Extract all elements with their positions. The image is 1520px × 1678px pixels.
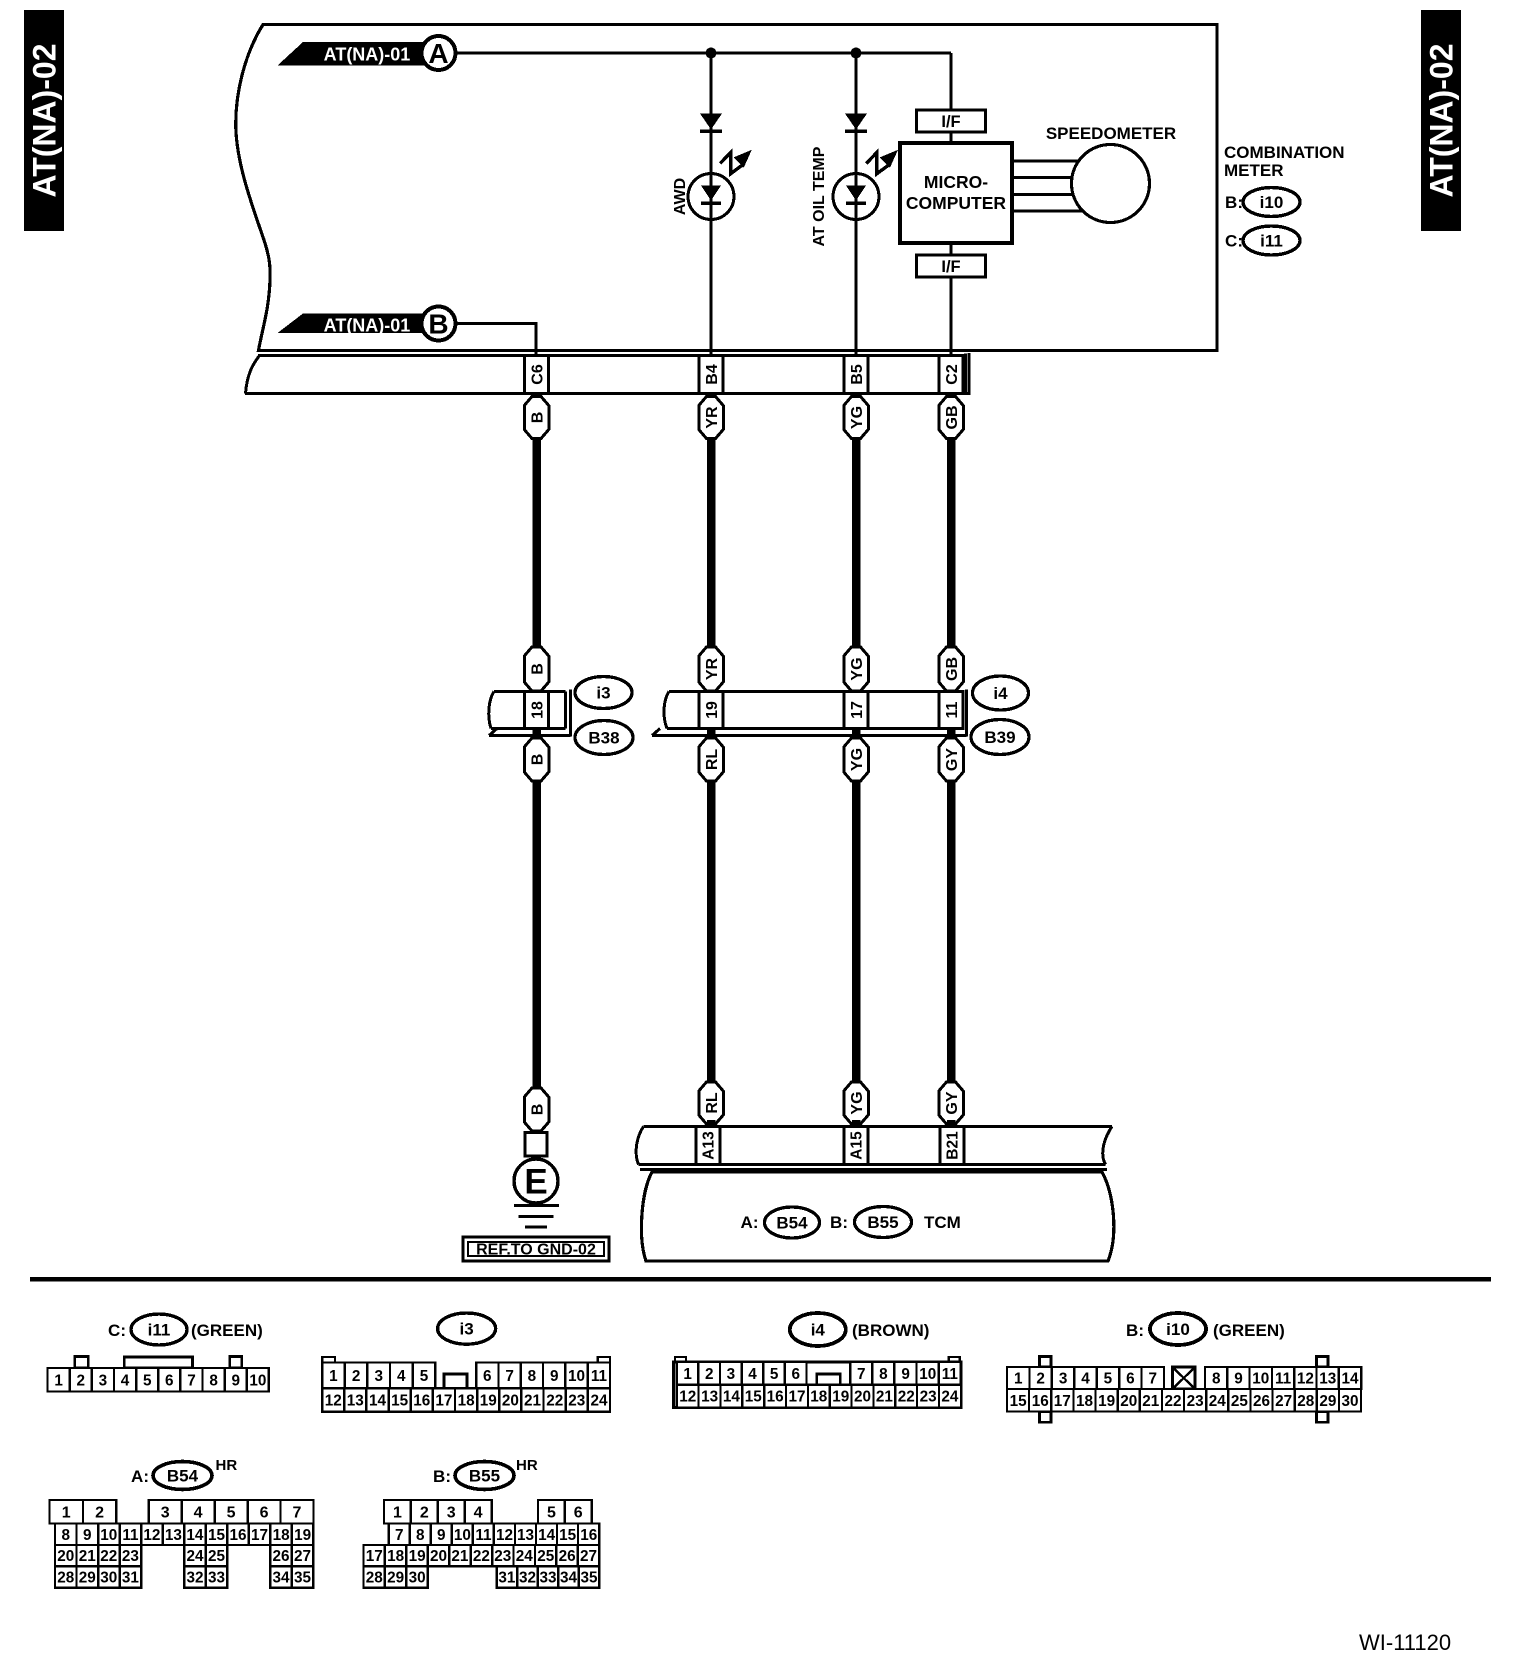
svg-text:34: 34 [560,1570,578,1587]
svg-text:2: 2 [95,1505,104,1522]
label SPEEDOMETER [1046,124,1176,143]
svg-text:18: 18 [1076,1393,1094,1410]
svg-text:15: 15 [208,1527,226,1544]
svg-text:2: 2 [352,1368,361,1385]
svg-text:29: 29 [1319,1393,1336,1410]
wire stub [852,1120,861,1128]
connector id B39 [971,720,1029,755]
svg-text:B5: B5 [849,364,866,385]
svg-text:1: 1 [683,1366,692,1383]
svg-text:B55: B55 [867,1213,898,1232]
svg-text:YG: YG [849,748,866,771]
svg-text:11: 11 [1275,1371,1292,1388]
svg-text:A15: A15 [849,1131,866,1160]
svg-text:i4: i4 [993,684,1008,703]
svg-text:C2: C2 [944,364,961,385]
svg-text:11: 11 [944,701,961,718]
pin C6 [525,356,549,394]
wire to I/F top [950,53,953,110]
svg-text:18: 18 [810,1389,828,1406]
wire code B 3 [524,738,549,781]
svg-text:B:: B: [830,1213,848,1232]
wire code YG 4 [844,1082,869,1124]
svg-text:B39: B39 [984,728,1015,747]
svg-text:B: B [529,412,546,424]
svg-text:5: 5 [770,1366,779,1383]
svg-text:16: 16 [767,1389,784,1406]
svg-text:17: 17 [435,1393,452,1410]
svg-text:GB: GB [944,657,961,681]
pin 18 [525,692,549,729]
svg-text:B: B [529,1104,546,1116]
svg-text:YR: YR [704,657,721,680]
connector face i11 [48,1357,269,1392]
wire stub [947,729,956,742]
wire [950,243,953,255]
svg-text:6: 6 [1126,1371,1135,1388]
svg-text:11: 11 [591,1368,608,1385]
svg-text:19: 19 [1098,1393,1115,1410]
svg-text:6: 6 [483,1368,492,1385]
pin A15 [844,1127,868,1165]
svg-text:20: 20 [57,1548,74,1565]
TCM connector band [636,1127,1112,1170]
svg-text:2: 2 [1036,1371,1045,1388]
svg-text:C:: C: [108,1321,126,1340]
svg-text:7: 7 [293,1505,302,1522]
svg-text:24: 24 [516,1548,534,1565]
svg-text:7: 7 [857,1366,866,1383]
svg-text:4: 4 [748,1366,757,1383]
svg-text:B:: B: [433,1467,451,1486]
svg-text:4: 4 [397,1368,406,1385]
connector id i4 [973,676,1029,710]
svg-text:20: 20 [854,1389,871,1406]
connector face i10 [1007,1357,1361,1423]
svg-text:2: 2 [420,1505,429,1522]
svg-text:GY: GY [944,748,961,771]
svg-text:26: 26 [1253,1393,1270,1410]
svg-text:3: 3 [1059,1371,1068,1388]
label A: B54 [741,1207,820,1238]
svg-text:9: 9 [232,1372,241,1389]
pin 19 [699,692,723,729]
svg-text:B21: B21 [945,1131,962,1160]
svg-text:21: 21 [79,1548,97,1565]
svg-text:6: 6 [165,1372,174,1389]
TCM box [641,1172,1113,1261]
svg-text:MICRO-: MICRO- [924,172,988,192]
connector flag AT(NA)-01 A [278,36,456,70]
svg-text:YG: YG [849,657,866,680]
svg-text:7: 7 [1149,1371,1158,1388]
svg-text:4: 4 [121,1372,130,1389]
svg-text:22: 22 [1164,1393,1181,1410]
svg-text:30: 30 [1341,1393,1358,1410]
wire code GY 2 [939,1082,964,1124]
svg-text:A:: A: [741,1213,759,1232]
svg-text:12: 12 [325,1393,342,1410]
svg-text:13: 13 [517,1527,534,1544]
svg-text:12: 12 [496,1527,513,1544]
separator line [30,1277,1491,1282]
svg-text:REF.TO GND-02: REF.TO GND-02 [476,1242,596,1259]
wire code GB 2 [939,647,964,691]
svg-text:31: 31 [498,1570,516,1587]
svg-text:32: 32 [519,1570,536,1587]
wire YG to TCM [852,781,861,1082]
svg-text:SPEEDOMETER: SPEEDOMETER [1046,124,1176,143]
svg-text:15: 15 [745,1389,763,1406]
svg-text:24: 24 [186,1548,204,1565]
LED indicator AT OIL TEMP [833,174,879,220]
svg-text:27: 27 [580,1548,597,1565]
wire code YR [699,397,724,439]
svg-text:17: 17 [251,1527,268,1544]
svg-text:16: 16 [229,1527,246,1544]
svg-text:HR: HR [216,1457,238,1474]
pin C2 [939,356,963,394]
svg-text:B4: B4 [704,364,721,385]
svg-text:10: 10 [100,1527,117,1544]
svg-text:20: 20 [430,1548,447,1565]
svg-text:2: 2 [705,1366,714,1383]
svg-text:23: 23 [568,1393,585,1410]
svg-text:9: 9 [83,1527,92,1544]
svg-text:AT(NA)-01: AT(NA)-01 [324,316,411,336]
label B: B55 HR [433,1457,538,1490]
connector band i4/B39 [652,690,967,737]
svg-text:23: 23 [1187,1393,1204,1410]
svg-text:14: 14 [723,1389,741,1406]
ground terminal block [525,1133,547,1157]
label C: i11 (GREEN) [108,1314,263,1345]
wire code GB [939,397,964,439]
ground point E [514,1159,558,1203]
wire YR B4-i4 [707,439,716,649]
svg-text:18: 18 [529,701,546,719]
svg-text:12: 12 [679,1389,696,1406]
svg-text:33: 33 [208,1570,225,1587]
wire from B [455,322,536,356]
svg-text:27: 27 [1275,1393,1292,1410]
svg-text:B38: B38 [588,729,619,748]
svg-text:AT(NA)-01: AT(NA)-01 [324,45,411,65]
svg-text:30: 30 [100,1570,117,1587]
svg-text:10: 10 [454,1527,471,1544]
svg-text:25: 25 [1231,1393,1249,1410]
wire code B 4 [524,1088,549,1131]
wire code GY [939,738,964,781]
wire [950,132,953,143]
node junction dot 2 [851,48,862,59]
speedometer dial [1072,145,1150,223]
svg-text:i3: i3 [460,1320,474,1339]
svg-text:5: 5 [420,1368,429,1385]
wire AT OIL TEMP branch [855,53,858,356]
svg-text:B54: B54 [167,1467,199,1486]
svg-text:7: 7 [505,1368,514,1385]
svg-text:22: 22 [473,1548,490,1565]
svg-text:B: B [529,754,546,766]
svg-text:17: 17 [849,701,866,719]
svg-text:7: 7 [187,1372,196,1389]
connector face B55 [364,1500,600,1588]
connector id B38 [575,721,633,755]
svg-text:1: 1 [62,1505,71,1522]
connector face i4 [674,1357,962,1408]
svg-text:33: 33 [539,1570,556,1587]
svg-text:24: 24 [1209,1393,1227,1410]
svg-text:3: 3 [374,1368,383,1385]
svg-text:19: 19 [294,1527,311,1544]
pin B4 [699,356,723,394]
svg-text:14: 14 [369,1393,387,1410]
svg-text:5: 5 [547,1505,556,1522]
wire code B [524,397,549,439]
svg-text:RL: RL [704,1092,721,1114]
ref to gnd-02 box [463,1237,609,1261]
svg-text:26: 26 [272,1548,289,1565]
svg-text:12: 12 [143,1527,160,1544]
svg-text:24: 24 [941,1389,959,1406]
wire GB C2-i4 [947,439,956,649]
svg-text:9: 9 [550,1368,559,1385]
svg-text:AWD: AWD [672,178,689,215]
svg-text:14: 14 [1341,1371,1359,1388]
wire AWD branch [710,53,713,356]
svg-text:28: 28 [1297,1393,1315,1410]
svg-text:C6: C6 [529,364,546,385]
wire stub [707,729,716,742]
label COMBINATION METER [1224,143,1345,180]
svg-text:C:: C: [1225,232,1243,251]
svg-text:6: 6 [260,1505,269,1522]
svg-text:YG: YG [849,406,866,429]
label B: i10 (GREEN) [1126,1313,1285,1345]
svg-text:GB: GB [944,406,961,430]
svg-text:21: 21 [451,1548,469,1565]
svg-text:3: 3 [161,1505,170,1522]
pin 17 [844,692,868,729]
svg-text:15: 15 [1010,1393,1028,1410]
svg-text:11: 11 [122,1527,139,1544]
svg-text:B:: B: [1225,193,1243,212]
svg-text:COMPUTER: COMPUTER [906,193,1007,213]
svg-text:B54: B54 [776,1214,808,1233]
svg-text:4: 4 [194,1505,203,1522]
label A: B54 HR [131,1457,237,1490]
flash arrow 1 [720,150,752,174]
pin 11 [939,692,963,729]
svg-text:16: 16 [1032,1393,1049,1410]
svg-text:HR: HR [516,1457,538,1474]
svg-text:i10: i10 [1260,193,1284,212]
I/F box top [917,110,986,132]
svg-text:YR: YR [704,406,721,429]
svg-text:5: 5 [143,1372,152,1389]
svg-text:B55: B55 [469,1467,500,1486]
svg-text:6: 6 [792,1366,801,1383]
svg-text:B:: B: [1126,1321,1144,1340]
svg-text:4: 4 [1081,1371,1090,1388]
svg-text:31: 31 [122,1570,140,1587]
svg-text:8: 8 [62,1527,71,1544]
svg-text:28: 28 [57,1570,75,1587]
diode D1 [700,114,722,132]
meter connector band [245,353,969,395]
wire stub [852,729,861,742]
I/F box bottom [917,255,986,277]
svg-text:5: 5 [227,1505,236,1522]
ground symbol [514,1206,559,1228]
micro-computer box U1 [900,143,1012,243]
wire B to ground [532,781,541,1088]
svg-text:15: 15 [391,1393,409,1410]
svg-text:19: 19 [409,1548,426,1565]
label AWD [672,178,689,215]
svg-text:17: 17 [788,1389,805,1406]
connector ref C: i11 [1225,226,1300,255]
svg-text:3: 3 [447,1505,456,1522]
svg-text:13: 13 [347,1393,364,1410]
svg-text:18: 18 [387,1548,405,1565]
svg-text:19: 19 [832,1389,849,1406]
svg-text:11: 11 [475,1527,492,1544]
left page tab AT(NA)-02 [24,10,64,231]
svg-text:8: 8 [528,1368,537,1385]
connector face i3 [322,1357,610,1412]
label B: B55 [830,1207,911,1238]
combination meter box outline [236,25,1217,351]
svg-text:34: 34 [272,1570,290,1587]
wire stub [707,1120,716,1128]
svg-text:11: 11 [942,1366,959,1383]
svg-text:10: 10 [919,1366,936,1383]
svg-text:TCM: TCM [924,1213,961,1232]
svg-text:14: 14 [538,1527,556,1544]
svg-text:1: 1 [1014,1371,1023,1388]
svg-text:15: 15 [559,1527,577,1544]
connector face B54 [50,1500,314,1588]
connector flag AT(NA)-01 B [278,307,456,341]
svg-text:10: 10 [568,1368,585,1385]
wire code YR 2 [699,647,724,691]
svg-text:28: 28 [366,1570,384,1587]
node junction dot 1 [706,48,717,59]
connector band i3/B38 [489,690,571,737]
svg-text:30: 30 [409,1570,426,1587]
svg-text:29: 29 [79,1570,96,1587]
flash arrow 2 [866,150,898,174]
wire code YG 3 [844,738,869,781]
svg-text:3: 3 [99,1372,108,1389]
page code WI-11120 [1359,1630,1451,1655]
svg-text:17: 17 [366,1548,383,1565]
svg-text:27: 27 [294,1548,311,1565]
svg-text:13: 13 [701,1389,718,1406]
wire stub [947,1120,956,1128]
wire code YG [844,397,869,439]
svg-text:A: A [428,38,448,69]
svg-text:12: 12 [1297,1371,1314,1388]
svg-text:i11: i11 [1260,232,1283,251]
wire from A [455,52,951,55]
svg-text:16: 16 [580,1527,597,1544]
wire B C6-i3 [532,439,541,649]
svg-text:WI-11120: WI-11120 [1359,1630,1451,1655]
svg-text:1: 1 [393,1505,402,1522]
wire GY to TCM [947,781,956,1082]
svg-text:7: 7 [395,1527,404,1544]
svg-text:YG: YG [849,1091,866,1114]
svg-text:24: 24 [590,1393,608,1410]
svg-text:(BROWN): (BROWN) [852,1321,929,1340]
svg-text:METER: METER [1224,161,1284,180]
svg-text:i11: i11 [148,1321,171,1340]
svg-text:26: 26 [559,1548,576,1565]
svg-text:19: 19 [704,701,721,719]
svg-text:22: 22 [898,1389,915,1406]
svg-text:RL: RL [704,749,721,771]
svg-text:8: 8 [416,1527,425,1544]
svg-text:4: 4 [474,1505,483,1522]
svg-text:B: B [529,663,546,675]
svg-text:35: 35 [294,1570,312,1587]
svg-text:32: 32 [186,1570,203,1587]
svg-text:AT(NA)-02: AT(NA)-02 [27,43,63,197]
svg-text:23: 23 [122,1548,139,1565]
label i4 (BROWN) [790,1313,930,1346]
wire code B 2 [524,647,549,691]
svg-text:16: 16 [413,1393,430,1410]
svg-text:E: E [524,1163,547,1202]
svg-text:8: 8 [1212,1371,1221,1388]
svg-text:GY: GY [944,1091,961,1114]
label TCM [924,1213,961,1232]
speedometer linkage lines [1012,161,1085,211]
svg-text:3: 3 [727,1366,736,1383]
wire YG B5-i4 [852,439,861,649]
wire code RL 2 [699,1082,724,1124]
wire code RL [699,738,724,781]
label i3 [438,1313,496,1344]
svg-text:2: 2 [76,1372,85,1389]
svg-text:35: 35 [580,1570,598,1587]
svg-text:21: 21 [524,1393,542,1410]
svg-text:9: 9 [437,1527,446,1544]
svg-text:9: 9 [901,1366,910,1383]
pin B21 [940,1127,964,1165]
svg-text:22: 22 [546,1393,563,1410]
svg-text:I/F: I/F [941,258,960,276]
svg-text:1: 1 [54,1372,63,1389]
svg-text:19: 19 [480,1393,497,1410]
svg-text:23: 23 [494,1548,511,1565]
LED indicator AWD [688,174,734,220]
svg-text:AT(NA)-02: AT(NA)-02 [1424,43,1460,197]
svg-text:10: 10 [249,1372,266,1389]
svg-text:8: 8 [879,1366,888,1383]
wire code YG 2 [844,647,869,691]
diode D2 [845,114,867,132]
svg-text:(GREEN): (GREEN) [1213,1321,1285,1340]
svg-text:18: 18 [273,1527,291,1544]
wire RL to TCM [707,781,716,1082]
pin B5 [844,356,868,394]
svg-text:i10: i10 [1166,1320,1190,1339]
pin A13 [696,1127,720,1165]
